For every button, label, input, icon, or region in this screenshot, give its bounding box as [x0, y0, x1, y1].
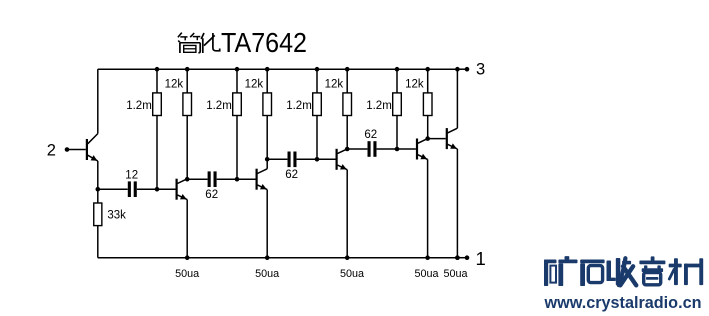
svg-text:50ua: 50ua — [414, 268, 438, 280]
svg-text:62: 62 — [285, 169, 298, 181]
svg-text:62: 62 — [364, 129, 377, 141]
svg-text:50ua: 50ua — [340, 268, 364, 280]
svg-text:1.2m: 1.2m — [366, 100, 392, 112]
svg-text:TA7642: TA7642 — [221, 27, 307, 58]
svg-text:12: 12 — [125, 170, 138, 182]
svg-text:33k: 33k — [107, 210, 126, 222]
svg-text:62: 62 — [205, 189, 218, 201]
svg-text:12k: 12k — [325, 78, 344, 90]
svg-text:12k: 12k — [165, 78, 184, 90]
svg-text:1.2m: 1.2m — [126, 100, 152, 112]
svg-text:1: 1 — [475, 248, 485, 269]
svg-text:2: 2 — [47, 141, 56, 159]
svg-text:3: 3 — [476, 61, 485, 79]
svg-text:12k: 12k — [245, 78, 264, 90]
svg-text:12k: 12k — [405, 78, 424, 90]
svg-text:1.2m: 1.2m — [206, 100, 232, 112]
svg-text:50ua: 50ua — [255, 268, 279, 280]
svg-text:50ua: 50ua — [175, 268, 199, 280]
svg-text:50ua: 50ua — [443, 268, 467, 280]
svg-text:www.crystalradio.cn: www.crystalradio.cn — [544, 294, 702, 312]
svg-text:1.2m: 1.2m — [286, 100, 312, 112]
